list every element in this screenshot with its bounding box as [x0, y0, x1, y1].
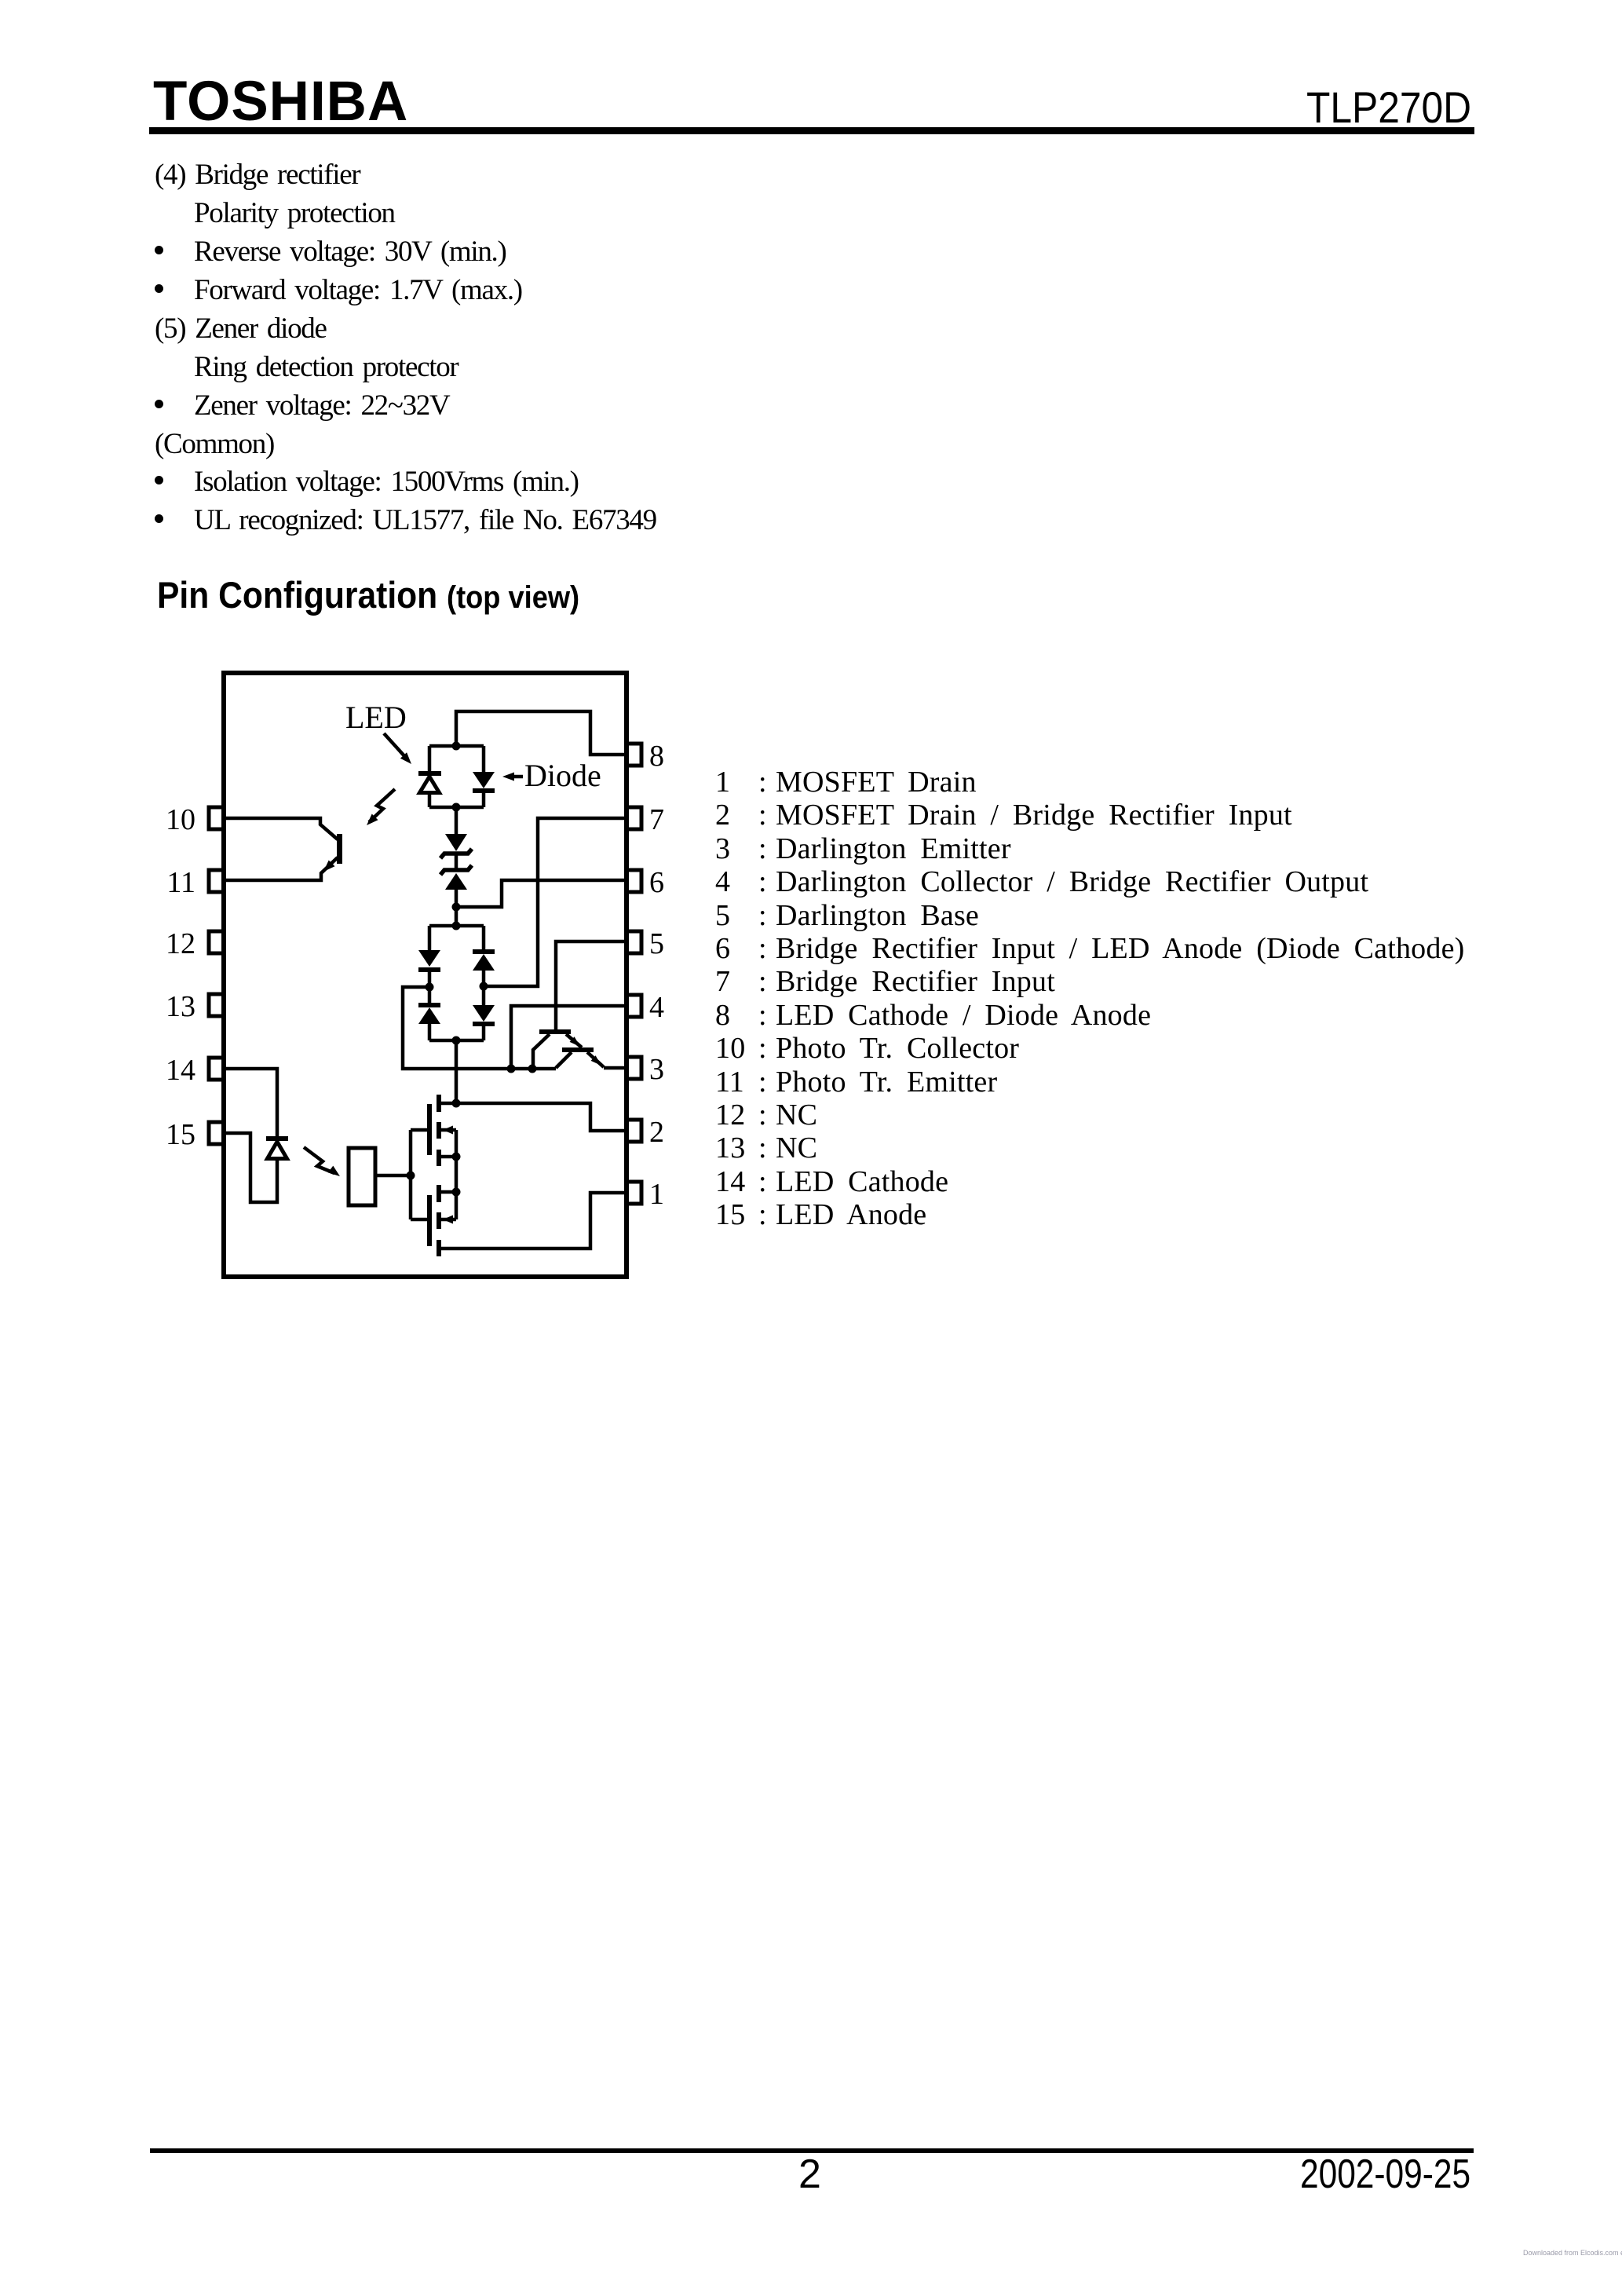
MOSFET M2 gate bar	[427, 1195, 432, 1246]
pin 13	[209, 994, 224, 1016]
node bridge right mid	[480, 982, 488, 991]
svg-text:12: 12	[166, 927, 195, 960]
MOSFET M2 body arrow	[443, 1216, 453, 1224]
MOSFET M1 body stub	[441, 1128, 456, 1132]
wire MOSFET M2 drain to pin 1	[441, 1193, 627, 1249]
transistor Q2 emitter arrow	[591, 1055, 601, 1066]
wire pin 5 to darlington base	[556, 941, 627, 1029]
node A zener to pin6	[452, 903, 461, 912]
zener Z1 triangle	[445, 834, 467, 851]
phototransistor Q3 collector	[224, 818, 338, 839]
bridge right branch wire	[482, 926, 486, 1040]
node top of LED loop	[452, 742, 461, 751]
pin 10	[209, 807, 224, 829]
node gate tie	[407, 1172, 415, 1180]
LED D7 triangle	[268, 1142, 287, 1159]
wire Z1 to Z2	[455, 853, 458, 869]
svg-text:5: 5	[649, 927, 664, 960]
wire bridge left node to darlington rail	[403, 987, 556, 1069]
svg-text:14: 14	[166, 1054, 195, 1087]
bridge diode D6 triangle	[473, 1005, 495, 1022]
LED label arrow	[384, 733, 407, 759]
phototransistor Q3 emitter	[224, 857, 338, 880]
bridge diode D3 bar	[418, 967, 440, 972]
wire LED loop	[429, 746, 484, 807]
LED D1 cathode bar	[418, 771, 441, 776]
MOSFET M1 gate bar	[427, 1104, 432, 1155]
svg-text:7: 7	[649, 803, 664, 836]
MOSFET M1 source stub	[441, 1155, 456, 1159]
svg-text:3: 3	[649, 1053, 664, 1086]
phototransistor Q3 emitter arrow	[323, 861, 335, 872]
wire LED D7 to pin 15	[224, 1133, 277, 1202]
node rail Q1 collector	[528, 1065, 537, 1073]
pin 5	[627, 931, 641, 953]
feature list	[155, 158, 360, 192]
LED D7 cathode bar	[266, 1136, 288, 1141]
transistor Q1 collector	[533, 1034, 550, 1069]
bridge rectifier top rail	[429, 924, 484, 928]
pin 15	[209, 1122, 224, 1144]
node MOSFET drain	[452, 1099, 461, 1108]
pin 6	[627, 870, 641, 892]
light arrow to photodetector	[304, 1147, 334, 1173]
svg-text:8: 8	[649, 740, 664, 773]
transistor Q2 base bar	[562, 1047, 594, 1052]
node bridge top	[452, 922, 461, 930]
MOSFET M2 body stub	[441, 1218, 456, 1222]
svg-text:6: 6	[649, 866, 664, 899]
pin 1	[627, 1182, 641, 1204]
wire bridge bottom to MOSFET drains	[455, 1040, 458, 1103]
wire source-body tie	[455, 1130, 458, 1219]
wire MOSFET M1 drain to pin 2	[441, 1103, 627, 1131]
Diode label arrow	[510, 775, 523, 779]
svg-text:LED: LED	[345, 700, 407, 735]
bridge diode D4 triangle	[418, 1007, 440, 1024]
header rule	[149, 127, 1474, 134]
date	[1300, 2151, 1470, 2198]
diode D2 triangle	[473, 772, 495, 788]
transistor Q1 base bar	[539, 1029, 571, 1034]
wire LED loop to zener Z1	[455, 807, 458, 834]
section heading	[157, 573, 579, 616]
part number TLP270D	[1306, 82, 1471, 133]
bridge diode D4 bar	[418, 1003, 440, 1007]
svg-text:10: 10	[166, 803, 195, 836]
pin 4	[627, 995, 641, 1017]
IC package outline U1	[224, 673, 627, 1277]
bridge diode D3 triangle	[418, 950, 440, 967]
svg-text:Diode: Diode	[524, 758, 601, 793]
MOSFET M2 channel segments	[437, 1185, 441, 1202]
node M2 source	[452, 1188, 461, 1197]
wire node A to pin 6	[456, 880, 627, 907]
bridge diode D5 triangle	[473, 954, 495, 971]
transistor Q1 emitter arrow	[570, 1036, 580, 1047]
bridge left branch wire	[428, 926, 432, 1040]
pin 7	[627, 807, 641, 829]
pin 8	[627, 744, 641, 766]
node rail pin4 riser	[507, 1065, 516, 1073]
transistor Q2 collector	[556, 1052, 572, 1068]
transistor Q2 emitter	[587, 1052, 627, 1068]
svg-text:13: 13	[166, 990, 195, 1023]
photodetector PD1 box	[349, 1148, 375, 1205]
pin 3	[627, 1057, 641, 1079]
pin 2	[627, 1120, 641, 1142]
zener Z2 bar	[440, 865, 472, 875]
tiny watermark	[1523, 2249, 1622, 2257]
zener Z2 triangle	[445, 873, 467, 890]
page number	[798, 2151, 821, 2198]
wire pin 14 to LED D7	[224, 1069, 277, 1136]
zener Z1 bar	[440, 849, 472, 858]
wire gate tie	[375, 1130, 427, 1219]
footer rule	[150, 2148, 1474, 2153]
node M1 source	[452, 1153, 461, 1161]
bridge diode D5 bar	[473, 949, 495, 954]
phototransistor Q3 base bar	[337, 834, 342, 864]
svg-text:15: 15	[166, 1118, 195, 1151]
wire rail to pin 4	[511, 1006, 627, 1069]
pin 14	[209, 1058, 224, 1080]
MOSFET M2 source stub	[441, 1190, 456, 1194]
svg-text:1: 1	[649, 1178, 664, 1211]
node bottom of LED loop	[452, 803, 461, 812]
svg-text:4: 4	[649, 991, 664, 1024]
TOSHIBA logo	[153, 70, 408, 133]
wire pin8 to LED top node	[456, 711, 627, 755]
node bridge left mid	[426, 983, 434, 992]
pin 12	[209, 931, 224, 953]
MOSFET M1 channel segments	[437, 1095, 441, 1112]
MOSFET M1 body arrow	[443, 1126, 453, 1135]
svg-text:11: 11	[166, 866, 195, 899]
diode D2 cathode bar	[473, 788, 495, 793]
bridge rectifier bottom rail	[429, 1039, 484, 1043]
wire Z2 to node A	[455, 890, 458, 926]
LED D1 triangle	[420, 777, 440, 793]
node bridge bottom	[452, 1036, 461, 1045]
bridge diode D6 bar	[473, 1022, 495, 1026]
wire bridge right node to pin 7	[484, 818, 627, 986]
light arrow to phototransistor	[369, 789, 395, 822]
transistor Q1 emitter	[566, 1034, 582, 1047]
pin 11	[209, 870, 224, 892]
svg-text:2: 2	[649, 1116, 664, 1149]
pin description list	[715, 766, 1465, 1232]
